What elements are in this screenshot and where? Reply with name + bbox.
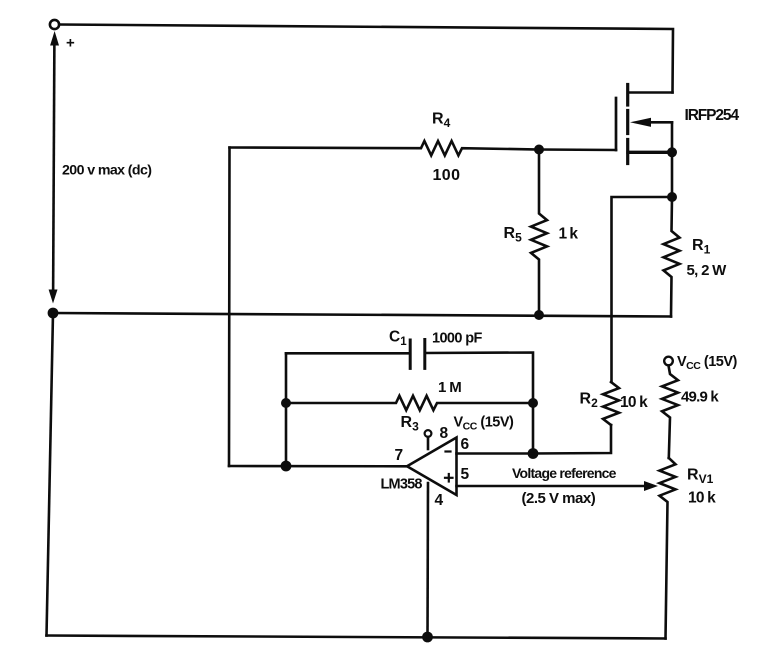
wire: feedback left column — [285, 353, 288, 466]
svg-text:R2: R2 — [580, 391, 599, 411]
svg-text:R4: R4 — [432, 111, 451, 131]
wire: inverting input lead — [457, 452, 534, 455]
wire: C1 left lead — [286, 352, 410, 355]
resistor R2 — [603, 382, 619, 425]
wire: bottom rail — [47, 636, 666, 639]
svg-text:1 M: 1 M — [438, 379, 461, 396]
svg-text:200 v max (dc): 200 v max (dc) — [62, 163, 152, 179]
svg-text:10 k: 10 k — [688, 490, 716, 507]
node: inverting input junction — [528, 448, 539, 459]
svg-text:4: 4 — [435, 492, 444, 509]
wire: top rail — [59, 25, 673, 93]
svg-text:R3: R3 — [401, 414, 420, 434]
svg-text:1 k: 1 k — [559, 226, 579, 243]
node: left rail junction — [48, 308, 59, 319]
transistor Q1 IRFP254 — [616, 85, 672, 164]
svg-text:(2.5 V max): (2.5 V max) — [522, 490, 596, 507]
wire: sense bus — [53, 313, 671, 317]
wire: op-amp output — [229, 465, 407, 468]
svg-text:C1: C1 — [389, 329, 407, 349]
node: 1M left junction — [281, 398, 291, 408]
svg-text:IRFP254: IRFP254 — [685, 107, 740, 124]
node: output junction — [281, 461, 292, 472]
wire: drain lead — [629, 91, 673, 94]
wire: source to sense node — [671, 152, 674, 197]
wire: output column to R4 — [228, 148, 231, 467]
svg-text:LM358: LM358 — [381, 477, 423, 493]
node: gate node — [534, 145, 544, 155]
node: 1M right junction — [528, 398, 538, 408]
node: pin4 ground junction — [422, 632, 433, 643]
node: MOSFET source junction — [667, 147, 677, 157]
capacitor C1 — [410, 340, 425, 369]
svg-text:49.9 k: 49.9 k — [681, 389, 719, 406]
svg-text:+: + — [66, 35, 75, 52]
terminal: + input — [50, 20, 59, 29]
node: R5 bottom junction — [534, 310, 544, 320]
wire: gate wire — [539, 148, 616, 151]
svg-text:VCC (15V): VCC (15V) — [454, 415, 515, 433]
svg-text:7: 7 — [395, 447, 404, 464]
svg-text:R5: R5 — [504, 225, 523, 245]
op-amp U1 LM358 — [407, 430, 457, 495]
svg-text:5: 5 — [461, 466, 470, 483]
node: sense junction — [667, 192, 677, 202]
resistor R1 — [664, 197, 680, 317]
svg-text:R1: R1 — [692, 237, 711, 257]
svg-text:VCC (15V): VCC (15V) — [677, 354, 738, 372]
terminal: Vcc right — [664, 357, 673, 366]
svg-text:10 k: 10 k — [620, 394, 648, 411]
resistor R5 — [531, 150, 547, 316]
dimension arrow: 200 v max — [53, 40, 54, 295]
wire: R2 bottom to inverting input — [533, 425, 611, 454]
wire: op-amp pin 4 to bottom rail — [426, 483, 429, 637]
wire: sense node to R2 top — [612, 197, 673, 382]
resistor 49.9k — [662, 366, 678, 459]
svg-text:5, 2 W: 5, 2 W — [687, 262, 728, 279]
svg-text:RV1: RV1 — [687, 467, 714, 487]
wire: left rail — [47, 313, 54, 636]
svg-text:1000 pF: 1000 pF — [432, 331, 483, 347]
wire: C1 right lead — [425, 353, 533, 454]
wire: non-inverting input to wiper — [457, 485, 647, 488]
svg-text:100: 100 — [433, 167, 461, 184]
svg-text:6: 6 — [461, 436, 470, 453]
svg-text:Voltage reference: Voltage reference — [512, 465, 617, 481]
resistor R4 — [230, 141, 540, 155]
potentiometer RV1 — [660, 458, 676, 639]
svg-text:8: 8 — [440, 425, 449, 442]
resistor R3 1M feedback — [286, 396, 533, 410]
